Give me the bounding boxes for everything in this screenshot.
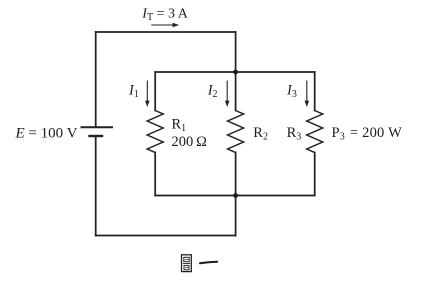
- svg-text:E = 100 V: E = 100 V: [15, 126, 78, 142]
- wire inner top rail: [155, 71, 315, 73]
- resistor R3: [307, 111, 323, 153]
- battery E: long positive plate: [81, 126, 114, 128]
- node A: top junction: [233, 70, 238, 75]
- wire branch R1 bottom: [154, 153, 156, 196]
- arrow for IT (points right): [151, 23, 179, 28]
- wire left top: battery positive plate up to top-left corner: [95, 32, 97, 127]
- svg-text:200 Ω: 200 Ω: [172, 134, 208, 150]
- caption: character 一 (one) drawn as stroke: [200, 262, 217, 264]
- wire branch R2 bottom: [235, 153, 237, 196]
- wire branch R2 top: [235, 72, 237, 111]
- wire bottom drop from node B: [235, 196, 237, 236]
- wire inner bottom rail: [155, 195, 315, 197]
- resistor R2: [228, 111, 244, 153]
- wire branch R3 bottom: [314, 153, 316, 196]
- caption: character 圖 (figure) drawn as strokes: [182, 255, 192, 272]
- wire right drop from top rail to node A: [235, 32, 237, 72]
- wire left bottom: battery negative plate down to bottom rail: [95, 136, 97, 236]
- arrow for I3 (points down): [305, 81, 310, 108]
- arrow for I2 (points down): [225, 81, 230, 108]
- wire branch R1 top: [154, 72, 156, 111]
- node B: bottom junction: [233, 193, 238, 198]
- wire bottom rail outer: [96, 235, 236, 237]
- battery E: short negative plate: [88, 135, 103, 137]
- wire branch R3 top: [314, 72, 316, 111]
- wire top rail: [96, 31, 236, 33]
- resistor R1: [147, 111, 163, 153]
- arrow for I1 (points down): [145, 81, 150, 108]
